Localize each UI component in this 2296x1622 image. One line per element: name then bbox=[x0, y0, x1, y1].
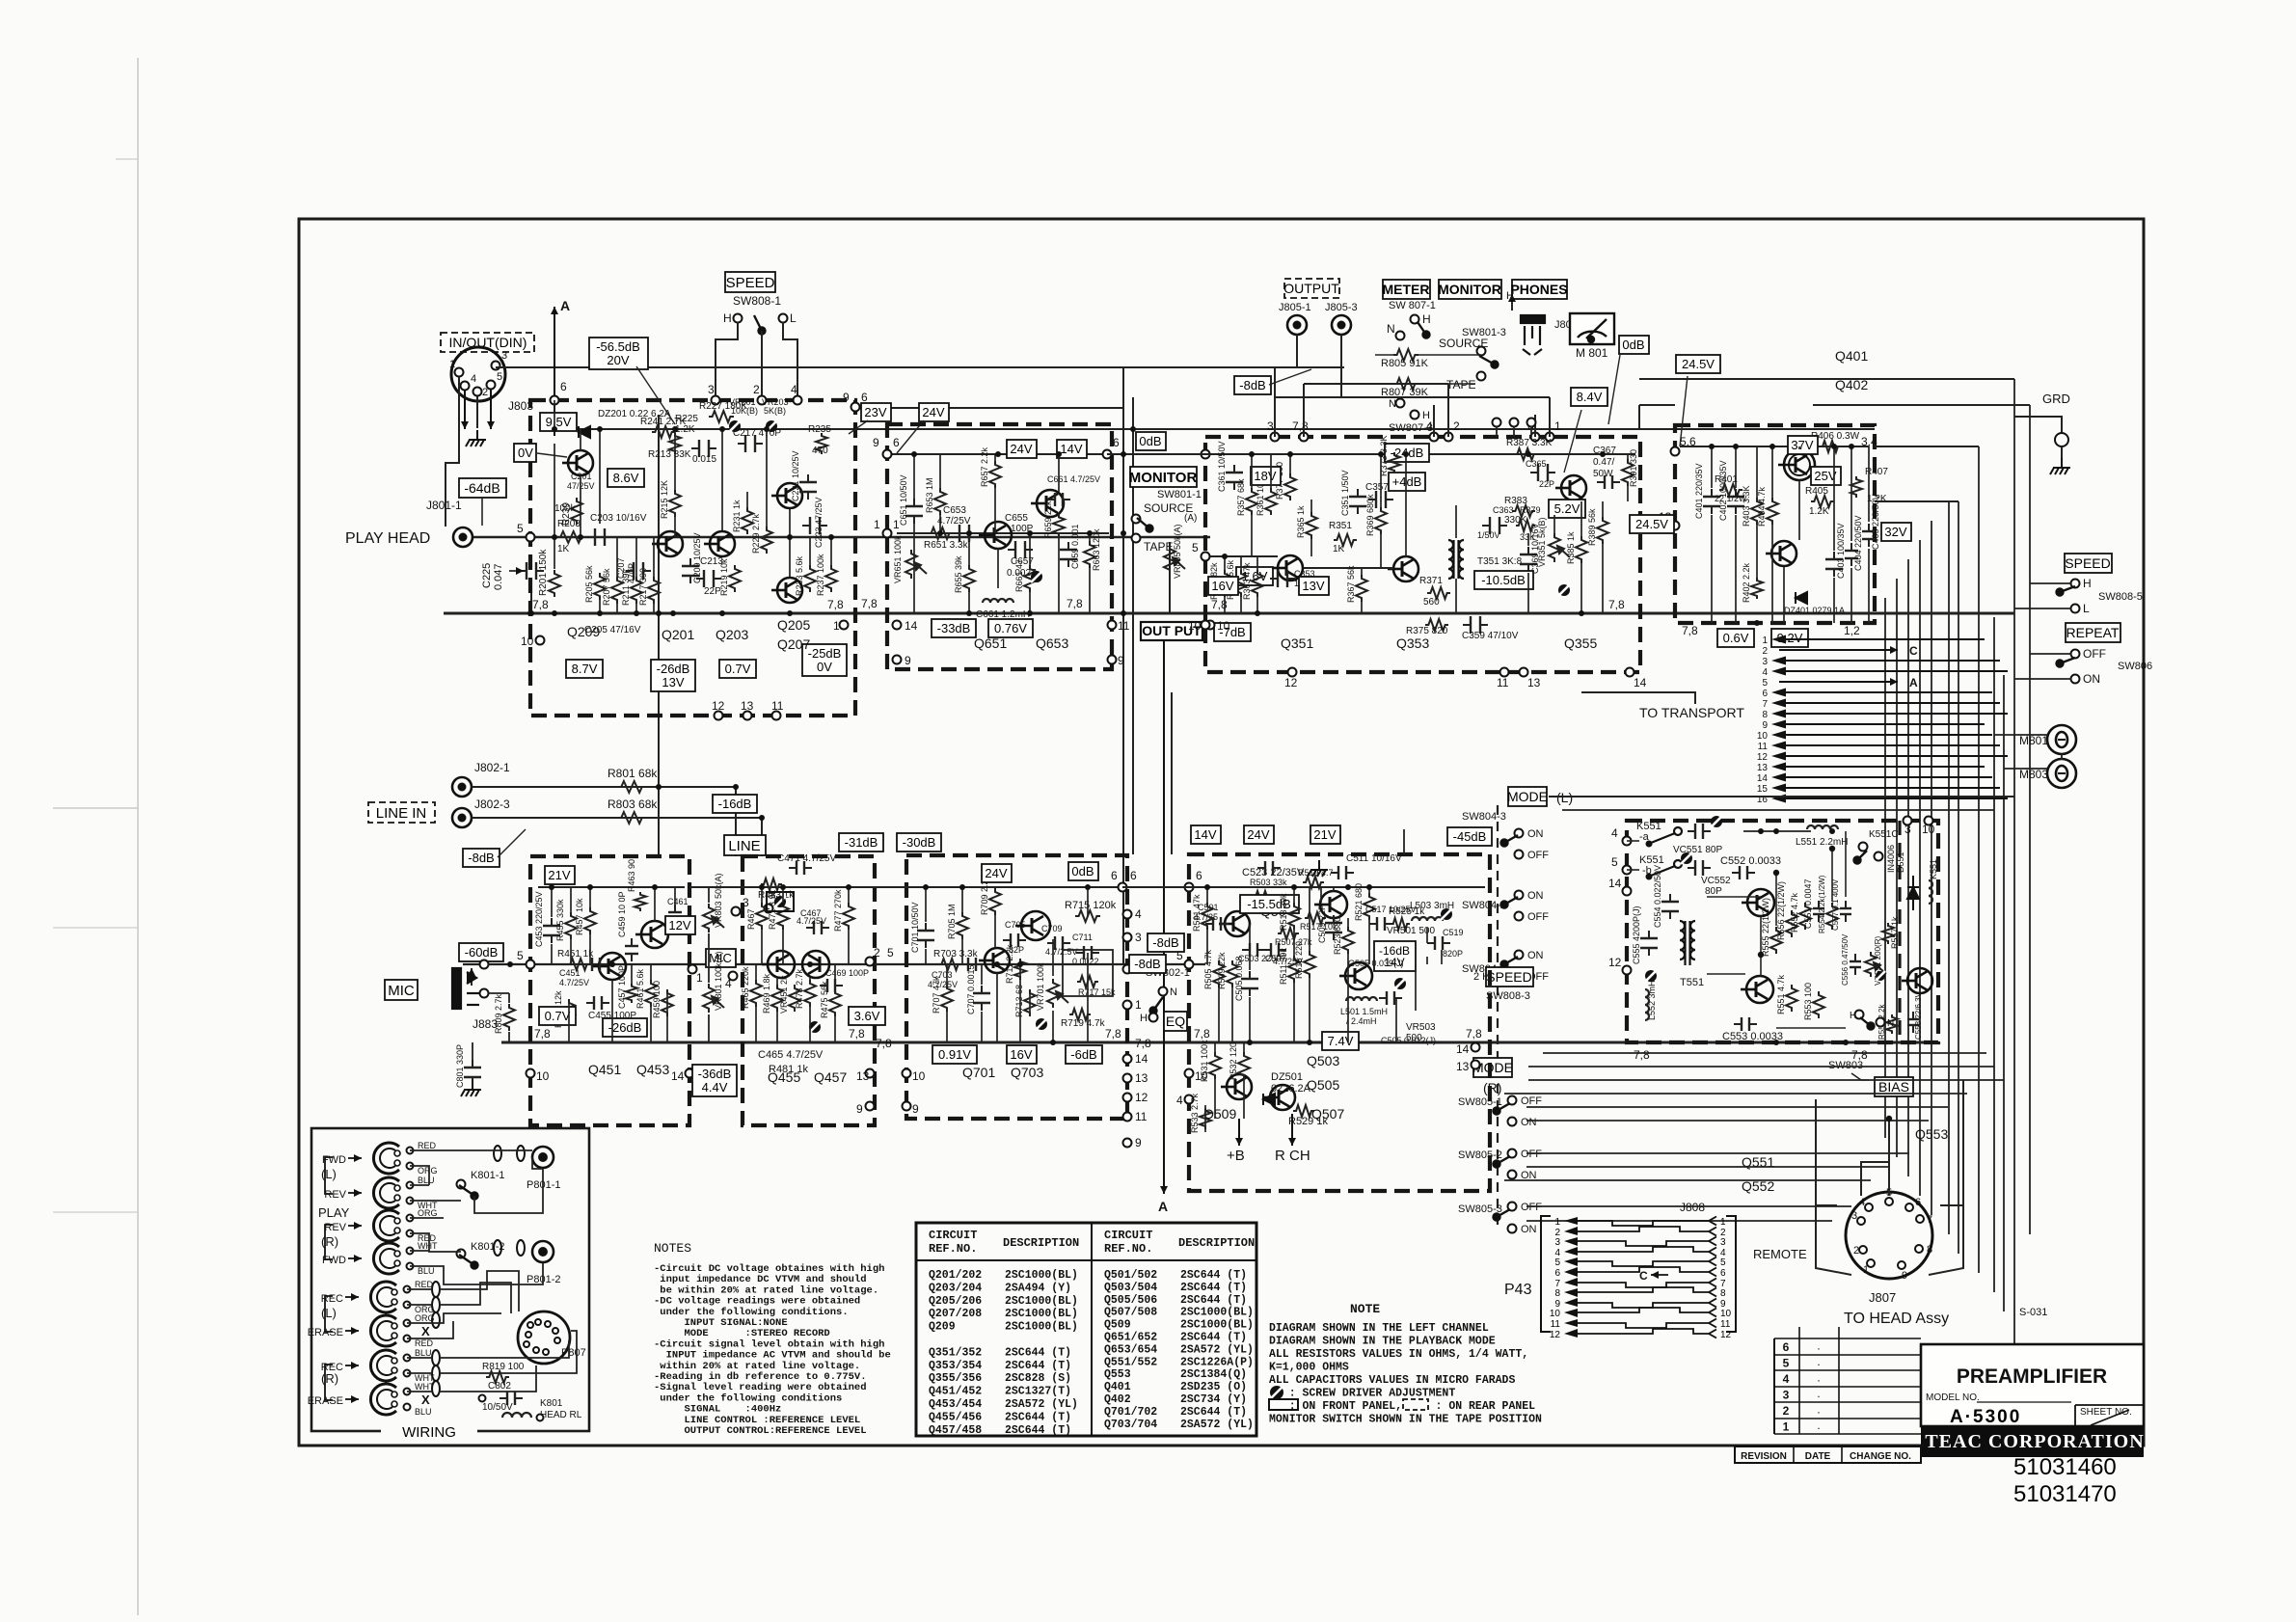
wire R807 left bbox=[1375, 383, 1393, 385]
voltage callout 24V block B bbox=[1007, 440, 1037, 458]
svg-text:13: 13 bbox=[1757, 763, 1769, 773]
label box MIC (mid) bbox=[706, 949, 736, 967]
level callout -8dB a bbox=[1148, 933, 1184, 952]
svg-text:3: 3 bbox=[501, 350, 507, 362]
svg-text:7,8: 7,8 bbox=[827, 598, 844, 611]
pin 5 of block C bbox=[1202, 553, 1210, 561]
svg-text:0226.2A: 0226.2A bbox=[1271, 1083, 1311, 1095]
pin 2 of J803 bbox=[473, 388, 482, 396]
svg-text:·: · bbox=[1817, 1358, 1821, 1371]
SW804-3 OFF contact bbox=[1515, 851, 1524, 859]
svg-text:H: H bbox=[723, 311, 732, 325]
wire record signal rail (lower) bbox=[463, 963, 1205, 965]
svg-text:1: 1 bbox=[1135, 998, 1142, 1012]
resistor R715 120k bbox=[1075, 910, 1100, 922]
svg-text:INPUT impedance AC VTVM and sh: INPUT impedance AC VTVM and should be bbox=[654, 1350, 891, 1362]
head arrow bbox=[345, 1293, 359, 1301]
dashed block: line amplifier (Q455/Q457) bbox=[743, 856, 875, 1125]
svg-text:C558 22/6.3V: C558 22/6.3V bbox=[1914, 991, 1923, 1040]
wire rail gap F-G bbox=[870, 886, 914, 888]
title block frame bbox=[1921, 1344, 2144, 1426]
svg-text:2: 2 bbox=[1783, 1404, 1790, 1418]
svg-text:G505 0.039(J): G505 0.039(J) bbox=[1348, 959, 1404, 968]
svg-text:Q451/452: Q451/452 bbox=[929, 1386, 982, 1398]
wire transport line 9 with left arrow bbox=[1771, 720, 1985, 729]
svg-text:C659 0.001: C659 0.001 bbox=[1070, 524, 1080, 569]
capacitor C553 bbox=[1734, 1017, 1757, 1031]
svg-text:R233 5.6k: R233 5.6k bbox=[795, 555, 804, 596]
svg-text:SPEED: SPEED bbox=[1486, 969, 1531, 985]
switch SW805-1 lever bbox=[1494, 1103, 1511, 1115]
svg-text:6: 6 bbox=[1915, 1197, 1921, 1208]
wire TO TRANSPORT bracket bbox=[1581, 692, 1695, 704]
wire bbox=[410, 1184, 429, 1186]
table transistor list frame bbox=[916, 1223, 1256, 1436]
svg-text:C403 100/35V: C403 100/35V bbox=[1836, 523, 1846, 579]
svg-text:: SCREW DRIVER ADJUSTMENT: : SCREW DRIVER ADJUSTMENT bbox=[1269, 1388, 1455, 1400]
resistor R465 220k bbox=[750, 980, 762, 1007]
capacitor C455 100P bbox=[586, 996, 609, 1010]
leader -8dB lower bbox=[498, 829, 526, 857]
svg-text:TAPE: TAPE bbox=[1144, 540, 1173, 554]
svg-text:CIRCUIT: CIRCUIT bbox=[1104, 1229, 1152, 1242]
svg-text:7: 7 bbox=[1762, 699, 1768, 710]
svg-text:7,8: 7,8 bbox=[1135, 1037, 1151, 1050]
svg-text:within 20% at rated line volta: within 20% at rated line voltage. bbox=[654, 1361, 860, 1372]
svg-text:2SC644 (T): 2SC644 (T) bbox=[1005, 1346, 1071, 1359]
wire into Q351 bbox=[1210, 555, 1278, 557]
transistor Q353 bbox=[1388, 556, 1418, 581]
label box REPEAT bbox=[2066, 623, 2120, 642]
svg-text:C556 0.47/50V: C556 0.47/50V bbox=[1841, 933, 1850, 986]
svg-text:1.2K: 1.2K bbox=[1809, 506, 1829, 517]
svg-text:2SC644 (T): 2SC644 (T) bbox=[1005, 1411, 1071, 1423]
svg-text:R555 22(1/2W): R555 22(1/2W) bbox=[1761, 898, 1770, 957]
svg-text:(R): (R) bbox=[1483, 1080, 1501, 1095]
wire bbox=[1496, 426, 1498, 437]
pot VR351 5k(B) bbox=[1549, 533, 1570, 562]
pot VR551 200(R) bbox=[1865, 952, 1886, 977]
svg-text:N: N bbox=[1170, 987, 1177, 998]
dashed block: bias oscillator (Q551/Q552) bbox=[1627, 821, 1938, 1042]
svg-text:0.047: 0.047 bbox=[493, 563, 504, 590]
head symbol ERASE bbox=[370, 1384, 397, 1415]
svg-text:SPEED: SPEED bbox=[726, 275, 775, 291]
bracket R rec bbox=[325, 1365, 333, 1400]
svg-text:10: 10 bbox=[1720, 1309, 1732, 1319]
level callout 0dB monitor bbox=[1136, 432, 1166, 450]
svg-text:SW808-3: SW808-3 bbox=[1486, 990, 1530, 1002]
svg-text:D551: D551 bbox=[1896, 852, 1905, 873]
svg-text:12: 12 bbox=[1550, 1330, 1561, 1340]
relay coil K551 bbox=[1929, 880, 1932, 904]
wire transport line 6 with left arrow bbox=[1771, 689, 1992, 697]
resistor R219 10k bbox=[729, 565, 741, 592]
voltage callout 18V bbox=[1251, 467, 1281, 485]
svg-text:4: 4 bbox=[1859, 1197, 1865, 1208]
head terminal b bbox=[407, 1198, 414, 1204]
switch SW801-3 lever bbox=[1479, 356, 1499, 368]
svg-text:50W: 50W bbox=[1593, 469, 1613, 479]
svg-text:13: 13 bbox=[1135, 1071, 1148, 1085]
voltage callout 3.6V bbox=[849, 1007, 885, 1025]
wire R805 right bbox=[1418, 354, 1481, 356]
svg-text:8.7V: 8.7V bbox=[572, 662, 598, 676]
screw adjust VC552 bbox=[1681, 852, 1692, 864]
meter M801 (top) bbox=[1570, 313, 1614, 344]
capacitor C209 10/25V bbox=[682, 558, 699, 583]
switch SW803 contact H bbox=[1855, 1011, 1864, 1019]
pin 1 bbox=[1546, 433, 1554, 442]
svg-text:C401 220/35V: C401 220/35V bbox=[1694, 463, 1704, 519]
pin 3 of block G right bbox=[1123, 933, 1132, 942]
svg-text:7,8: 7,8 bbox=[532, 598, 549, 611]
svg-text:2SC644 (T): 2SC644 (T) bbox=[1005, 1360, 1071, 1372]
svg-text:Q509: Q509 bbox=[1104, 1319, 1131, 1332]
svg-text:5K(B): 5K(B) bbox=[764, 406, 786, 416]
resistor R237 100k bbox=[825, 565, 837, 592]
svg-text:7,8: 7,8 bbox=[1851, 1048, 1868, 1062]
resistor R519 4.7k bbox=[1303, 877, 1324, 888]
resistor R463 90 bbox=[635, 892, 646, 911]
head terminal b bbox=[404, 1404, 411, 1411]
wire mode switch bus bbox=[1528, 1066, 1994, 1068]
svg-text:N: N bbox=[1389, 398, 1396, 410]
svg-text:EQ: EQ bbox=[1166, 1014, 1185, 1029]
svg-text:METER: METER bbox=[1383, 282, 1430, 297]
svg-text:VC552: VC552 bbox=[1701, 876, 1731, 886]
svg-text:REF.NO.: REF.NO. bbox=[929, 1242, 977, 1256]
voltage callout 25V bbox=[1811, 467, 1841, 485]
feedthrough bbox=[494, 1146, 501, 1161]
svg-text:4: 4 bbox=[1783, 1372, 1790, 1386]
svg-text:A: A bbox=[1909, 676, 1918, 689]
switch SW803 contact N bbox=[1877, 1018, 1885, 1027]
svg-text:Q457/458: Q457/458 bbox=[929, 1424, 982, 1437]
head symbol FWD bbox=[373, 1243, 400, 1274]
wire mic to block E bbox=[488, 963, 530, 965]
svg-text:Q209: Q209 bbox=[567, 624, 600, 639]
resistor R363 47k bbox=[1252, 570, 1263, 597]
wire block B signal path bbox=[897, 532, 1109, 534]
wire J803 pin3 to rail bbox=[496, 366, 512, 368]
svg-text:0.6V: 0.6V bbox=[1723, 631, 1749, 645]
label box MODE R bbox=[1472, 1058, 1513, 1077]
svg-text:DZ201 0.22 6.2A: DZ201 0.22 6.2A bbox=[598, 409, 671, 419]
svg-text:C469 100P: C469 100P bbox=[825, 968, 869, 978]
svg-text:OFF: OFF bbox=[1521, 1095, 1542, 1107]
svg-text:2SA572 (YL): 2SA572 (YL) bbox=[1180, 1343, 1254, 1356]
leader BIAS bbox=[1851, 1073, 1869, 1080]
wire transport line 15 with left arrow bbox=[1771, 784, 2000, 793]
switch SW805-2 lever bbox=[1494, 1156, 1511, 1168]
capacitor C659 0.001 bbox=[1060, 542, 1077, 567]
level callout -7dB bbox=[1214, 623, 1251, 641]
bracket J808 right bbox=[1726, 1216, 1736, 1332]
transistor Q203 bbox=[704, 531, 735, 556]
level callout 0dB top right bbox=[1619, 336, 1649, 354]
svg-text:3: 3 bbox=[708, 383, 715, 396]
svg-text:6: 6 bbox=[1762, 689, 1768, 699]
resistor R809 2.7k bbox=[503, 1004, 515, 1031]
svg-text:0V: 0V bbox=[817, 660, 832, 674]
pin 4 of J803 bbox=[461, 382, 470, 391]
svg-text:R509 22k: R509 22k bbox=[1217, 952, 1227, 989]
switch SW801-1 contact SOURCE bbox=[1132, 515, 1141, 524]
pin 13 bottom bbox=[1520, 668, 1528, 677]
svg-text:51031460: 51031460 bbox=[2013, 1454, 2117, 1480]
svg-text:R529 1k: R529 1k bbox=[1288, 1116, 1328, 1127]
voltage callout 24V bbox=[919, 403, 949, 421]
wire to GRD bbox=[2014, 417, 2062, 432]
pin 4 of block I bbox=[1623, 837, 1632, 846]
dashed block: record amplifier (Q701/Q703) bbox=[906, 855, 1127, 1119]
resistor R233 5.6k bbox=[804, 565, 816, 592]
svg-text:-6dB: -6dB bbox=[1070, 1047, 1096, 1062]
pin 5 of P807 bbox=[527, 1322, 533, 1328]
svg-text:-36dB: -36dB bbox=[698, 1067, 732, 1081]
svg-text:ON: ON bbox=[2083, 672, 2100, 686]
capacitor C552 bbox=[1732, 866, 1755, 879]
svg-text:12V: 12V bbox=[668, 918, 690, 933]
head terminal a bbox=[407, 1182, 414, 1189]
svg-text:Q401: Q401 bbox=[1104, 1381, 1131, 1393]
svg-text:21V: 21V bbox=[548, 868, 570, 882]
switch SW808-1 contact L bbox=[779, 314, 788, 323]
svg-text:R505 4.7k: R505 4.7k bbox=[1203, 949, 1213, 989]
connector J801-1 jack bbox=[453, 527, 473, 547]
label box SPEED (right) bbox=[2065, 554, 2112, 573]
svg-text:4: 4 bbox=[1135, 907, 1142, 921]
leader -64dB bbox=[481, 497, 483, 526]
svg-text:be within 20% at rated line vo: be within 20% at rated line voltage. bbox=[654, 1284, 878, 1296]
svg-text:Q703/704: Q703/704 bbox=[1104, 1419, 1157, 1431]
resistor R807 39K bbox=[1393, 378, 1418, 390]
svg-text:-8dB: -8dB bbox=[1239, 378, 1265, 392]
capacitor C461 10/16V bbox=[668, 905, 682, 928]
wire monitor vertical bus bbox=[1122, 367, 1124, 964]
wire bbox=[508, 993, 510, 1003]
svg-text:R363 47k: R363 47k bbox=[1242, 562, 1252, 600]
svg-text:Q353: Q353 bbox=[1396, 635, 1429, 651]
level callout -33dB bbox=[932, 619, 976, 637]
svg-text:ON: ON bbox=[1527, 890, 1544, 902]
K801-1 contact bbox=[457, 1180, 466, 1189]
svg-text:R387 3.3K: R387 3.3K bbox=[1506, 438, 1553, 448]
SW804-2 OFF contact bbox=[1515, 912, 1524, 921]
wire VR803-VR801 bbox=[708, 933, 710, 983]
wire to pin7-8 bbox=[1303, 384, 1305, 437]
capacitor C556 0.47/50V bbox=[1850, 954, 1861, 975]
svg-text:M801: M801 bbox=[2019, 734, 2048, 747]
level callout -45dB bbox=[1447, 827, 1492, 846]
svg-text:K801-1: K801-1 bbox=[471, 1170, 504, 1181]
diode D551 1N4006 bbox=[1907, 876, 1919, 910]
svg-text:-33dB: -33dB bbox=[937, 621, 971, 635]
pin 13 bbox=[1671, 522, 1680, 530]
svg-text:input impedance DC VTVM and sh: input impedance DC VTVM and should bbox=[654, 1274, 867, 1285]
svg-text:Q201: Q201 bbox=[662, 627, 694, 642]
dashed block: monitor amplifier (Q351/Q353/Q355) bbox=[1205, 437, 1640, 672]
pin 9 of block B bbox=[893, 656, 902, 664]
pin 2 of block G right bbox=[1123, 965, 1132, 974]
wire to P801-2 bbox=[410, 1263, 543, 1284]
pin 10 of block E bbox=[527, 1069, 535, 1078]
wire bbox=[410, 1250, 429, 1252]
svg-text:S-031: S-031 bbox=[2019, 1307, 2047, 1318]
level callout -31dB bbox=[839, 833, 883, 852]
svg-text:(A): (A) bbox=[1184, 513, 1197, 524]
voltage callout 24V block H bbox=[1244, 825, 1274, 844]
wire M801-M803 link bbox=[2061, 754, 2063, 760]
resistor R201 150k bbox=[549, 570, 560, 597]
svg-text:L: L bbox=[790, 311, 797, 325]
svg-text:SW808-1: SW808-1 bbox=[733, 294, 781, 308]
pin 14 ladder bbox=[1123, 1055, 1132, 1064]
svg-text:DIAGRAM SHOWN IN THE LEFT CHAN: DIAGRAM SHOWN IN THE LEFT CHANNEL bbox=[1269, 1322, 1489, 1335]
wire to pin1 bbox=[1549, 397, 1551, 437]
wire R805 left bbox=[1375, 354, 1393, 356]
svg-text:-Circuit signal level obtain w: -Circuit signal level obtain with high bbox=[654, 1338, 884, 1350]
svg-text:C709: C709 bbox=[1041, 924, 1063, 933]
svg-text:6: 6 bbox=[560, 380, 567, 393]
feedthrough bbox=[517, 1146, 525, 1161]
screw adjust VR201 bbox=[729, 420, 741, 432]
voltage callout 9.2V bbox=[1771, 629, 1808, 647]
label box MONITOR top bbox=[1438, 280, 1501, 299]
svg-text:9: 9 bbox=[873, 436, 879, 449]
resistor R513 39k bbox=[1288, 903, 1300, 930]
svg-text:10: 10 bbox=[536, 1069, 550, 1083]
transistor Q503 bbox=[1314, 891, 1347, 918]
svg-text:Q701/702: Q701/702 bbox=[1104, 1406, 1157, 1419]
wire to P807 c bbox=[440, 1340, 569, 1358]
svg-text:1: 1 bbox=[1720, 1217, 1726, 1228]
svg-text:6: 6 bbox=[1783, 1340, 1790, 1354]
resistor R529 1k bbox=[1293, 1105, 1314, 1117]
pin 5 of block I bbox=[1623, 866, 1632, 875]
capacitor C661 4.7/25V bbox=[1047, 493, 1070, 506]
capacitor C505 0.068 bbox=[1241, 971, 1258, 996]
svg-text:+B: +B bbox=[1227, 1148, 1245, 1164]
svg-text:18V: 18V bbox=[1254, 469, 1276, 483]
wire to P807 b bbox=[440, 1283, 511, 1313]
svg-text:J805-1: J805-1 bbox=[1279, 302, 1311, 313]
wire J802-3 right bbox=[472, 817, 762, 819]
pin 3 of J803 bbox=[492, 362, 500, 370]
resistor R719 4.7k bbox=[1069, 1009, 1091, 1020]
svg-text:R219 10k: R219 10k bbox=[719, 558, 729, 596]
svg-text:Q651: Q651 bbox=[974, 635, 1007, 651]
model number line bbox=[1977, 1401, 2071, 1403]
inductor L501 1.5mH bbox=[1346, 997, 1377, 1001]
screw adjust L503 bbox=[1441, 908, 1452, 920]
svg-text:R551 4.7k: R551 4.7k bbox=[1776, 974, 1786, 1014]
svg-text:R467: R467 bbox=[746, 908, 756, 930]
svg-text:J802-3: J802-3 bbox=[474, 797, 510, 811]
leader 0dB bbox=[1608, 355, 1620, 424]
voltage callout 24V block G bbox=[982, 864, 1012, 882]
svg-text:R469 1.8k: R469 1.8k bbox=[762, 973, 771, 1014]
switch SW804-2 lever bbox=[1501, 897, 1519, 908]
svg-text:12: 12 bbox=[1608, 956, 1622, 969]
capacitor C225 bbox=[519, 562, 544, 580]
resistor R551 4.7k bbox=[1786, 985, 1797, 1012]
pin 7 of P807 bbox=[524, 1341, 529, 1347]
pin 9 bbox=[851, 403, 860, 412]
transistor Q351 bbox=[1272, 555, 1303, 581]
leader 24V bbox=[897, 420, 924, 453]
capacitor C403 100/35V bbox=[1825, 552, 1843, 577]
wire K801 to P801 bbox=[474, 1169, 543, 1213]
wire J803 pin1 down bbox=[446, 377, 459, 527]
pin 13 ladder bbox=[1123, 1074, 1132, 1083]
screw adjust VR351 bbox=[1558, 584, 1570, 596]
svg-text:VR501 500: VR501 500 bbox=[1387, 926, 1435, 936]
pin 12 bbox=[715, 712, 723, 720]
transistor Q703 bbox=[1015, 911, 1050, 940]
svg-text:-30dB: -30dB bbox=[903, 835, 936, 850]
resistor R377 100 bbox=[1284, 473, 1296, 500]
svg-text:R205 56k: R205 56k bbox=[584, 565, 594, 603]
svg-text:DATE: DATE bbox=[1805, 1451, 1831, 1462]
svg-text:14: 14 bbox=[1608, 877, 1622, 890]
pin 14 of block H bbox=[1472, 1043, 1480, 1052]
wire into LINE block 2 bbox=[761, 818, 763, 856]
level callout -16dB 14V bbox=[1374, 941, 1416, 971]
resistor R461 5.6k bbox=[645, 980, 657, 1007]
transistor Q201 bbox=[652, 531, 683, 556]
svg-text:1: 1 bbox=[1554, 419, 1561, 433]
head arrow bbox=[345, 1362, 359, 1369]
svg-text:1: 1 bbox=[449, 359, 455, 370]
svg-text:Q355/356: Q355/356 bbox=[929, 1372, 982, 1385]
resistor R457 10k bbox=[584, 907, 596, 934]
svg-text:SW806: SW806 bbox=[2118, 661, 2152, 672]
front panel legend symbol bbox=[1269, 1399, 1298, 1410]
pin 9 of block G bbox=[903, 1102, 911, 1111]
connector J802-1 jack bbox=[452, 777, 472, 797]
capacitor C509 22P bbox=[1325, 915, 1342, 940]
wire vertical bus x=1991 bbox=[1919, 540, 1921, 1196]
svg-text:16V: 16V bbox=[1010, 1047, 1032, 1062]
svg-text:11: 11 bbox=[1551, 1319, 1561, 1330]
label box SPEED (mid) bbox=[1486, 967, 1533, 987]
svg-text:Q505/506: Q505/506 bbox=[1104, 1294, 1157, 1307]
svg-text:R473 2.7k: R473 2.7k bbox=[795, 968, 804, 1009]
resistor R717 15k bbox=[1077, 976, 1098, 987]
bracket L play bbox=[325, 1157, 333, 1194]
capacitor C551 0.0047 bbox=[1813, 901, 1824, 922]
wire transport line 7 with left arrow bbox=[1771, 699, 2000, 708]
pot VR451 2k bbox=[789, 985, 800, 1012]
pin 5 of block H bbox=[1185, 960, 1194, 969]
svg-text:C509 22P: C509 22P bbox=[1317, 905, 1327, 943]
svg-text:R657 2.2k: R657 2.2k bbox=[980, 446, 989, 487]
svg-text:5: 5 bbox=[1783, 1357, 1790, 1370]
svg-text:R213 33K: R213 33K bbox=[648, 449, 691, 460]
resistor R227 180K bbox=[709, 411, 734, 422]
svg-text:10: 10 bbox=[1217, 619, 1230, 633]
resistor R365 1k bbox=[1306, 512, 1317, 539]
wire J807 right loop bbox=[1929, 1205, 1963, 1275]
connector J883 mic jack bbox=[452, 968, 479, 1009]
svg-text:R351: R351 bbox=[1329, 521, 1352, 531]
svg-text:2 H: 2 H bbox=[1473, 971, 1490, 983]
resistor R717 network box bbox=[1063, 950, 1113, 996]
svg-text:C651 10/50V: C651 10/50V bbox=[899, 474, 908, 526]
pin 11 bbox=[772, 712, 781, 720]
